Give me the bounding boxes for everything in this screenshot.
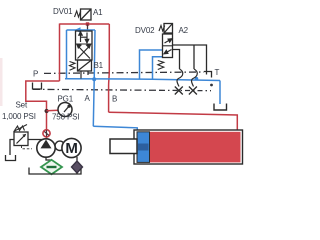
- check valve CV1 (red circle): [43, 130, 50, 137]
- valve DV01 position 1 arrows: [79, 32, 89, 43]
- wire relief valve drain to tank: [10, 140, 14, 156]
- pilot dashed line: [22, 146, 33, 149]
- valve DV02 position 2 arrow: [164, 50, 172, 54]
- wire blue box right vertical / work line A down: [93, 30, 95, 126]
- wire red left vertical: [59, 24, 61, 82]
- wire DV02 tank wire to T: [173, 45, 207, 75]
- svg-text:A2: A2: [179, 26, 189, 35]
- motor M1: [62, 138, 81, 157]
- svg-text:PG1: PG1: [58, 95, 74, 104]
- flow control FC2 arc arrow: [192, 69, 198, 87]
- valve DV01 solenoid spring: [75, 11, 81, 17]
- tank T2 (relief drain): [6, 155, 16, 161]
- valve DV01 position 2 crossed arrows: [77, 45, 91, 59]
- port T marker (corner bracket): [204, 72, 212, 78]
- cylinder piston (blue): [137, 132, 150, 163]
- relief valve RV1 spring/adjust arrow: [15, 126, 25, 131]
- valve DV02 bottom spring: [158, 61, 164, 70]
- relief valve RV1 flow arrow: [17, 135, 26, 144]
- svg-text:Set: Set: [16, 101, 28, 110]
- svg-text:B: B: [112, 95, 117, 104]
- filter F2 (return, dark diamond): [72, 161, 83, 173]
- flow control FC1 line from DV02: [173, 50, 180, 70]
- node pump outlet junction: [45, 109, 49, 113]
- cylinder rod: [110, 139, 137, 154]
- node A1 junction on red line: [86, 22, 89, 25]
- wire blue riser 2 to DV02 lower port: [153, 57, 163, 79]
- wire pump suction down: [46, 157, 51, 160]
- gauge PG1: [58, 103, 72, 117]
- cylinder CYL1 barrel: [134, 130, 243, 164]
- svg-text:1,000 PSI: 1,000 PSI: [2, 112, 36, 121]
- svg-text:P: P: [33, 70, 38, 79]
- flow control FC1 arc arrow: [177, 69, 183, 87]
- wire diamonds to reservoir: [52, 173, 78, 174]
- svg-text:M: M: [65, 140, 77, 157]
- valve DV01 bottom spring: [70, 62, 76, 71]
- wire blue to cylinder rod end: [93, 126, 137, 131]
- wire motor to return filter: [76, 157, 78, 161]
- valve DV01 solenoid box: [81, 9, 92, 20]
- filter F1 (suction strainer, green): [41, 160, 62, 175]
- svg-text:750 PSI: 750 PSI: [52, 113, 79, 122]
- wire blue tank return down: [219, 81, 221, 105]
- svg-text:T: T: [215, 68, 220, 77]
- svg-text:DV02: DV02: [135, 26, 155, 35]
- wire blue main horizontal run: [65, 79, 220, 81]
- flow control FC2 line from DV02 wire: [193, 45, 195, 70]
- valve DV02 body: [163, 34, 173, 58]
- wire blue riser to DV02: [140, 50, 163, 79]
- cylinder cap-end fluid (red): [150, 132, 241, 163]
- manifold top boundary dash-dot line: [44, 72, 204, 73]
- wire pump to check valve: [46, 137, 48, 139]
- valve DV01 body: [76, 31, 93, 60]
- port P marker (open box on boundary): [33, 83, 42, 90]
- manifold bottom boundary dash-dot line: [33, 89, 160, 90]
- arrow on B1 line: [75, 27, 81, 32]
- tank T1 (return reservoir symbol): [214, 104, 227, 111]
- flow control FC1 orifice X: [175, 87, 183, 95]
- valve DV02 solenoid box: [164, 24, 173, 34]
- svg-text:A1: A1: [93, 8, 103, 17]
- valve DV01 bottom solenoid box: [78, 60, 92, 71]
- pump P1: [37, 139, 55, 157]
- wire blue box left vertical: [66, 30, 68, 79]
- valve DV02 position 1 arrow: [165, 39, 173, 43]
- wire red bottom run to cylinder cap end: [109, 112, 238, 130]
- valve DV02 solenoid spring: [159, 26, 165, 32]
- coupling circle: [55, 141, 64, 150]
- svg-text:B1: B1: [94, 61, 104, 70]
- node blue tee junction: [92, 77, 96, 81]
- flow control FC2 orifice X: [189, 87, 197, 95]
- svg-text:A: A: [85, 94, 91, 103]
- wire DV01 bottom port stubs: [81, 71, 88, 79]
- wire relief valve to pump line: [28, 139, 46, 141]
- svg-text:DV01: DV01: [53, 7, 73, 16]
- wire reservoir bottom line: [29, 168, 81, 175]
- manifold bottom dash-dot continuation through flow controls: [160, 89, 211, 91]
- wire DV01 A-port stub: [81, 25, 88, 32]
- wire red to gauge PG1: [47, 109, 59, 112]
- relief valve RV1 body: [14, 132, 28, 146]
- wire blue B1 top edge with arrow: [67, 29, 96, 31]
- wire red right vertical A1 to cylinder: [108, 24, 111, 112]
- wire P supply red: top horizontal A1 run: [60, 23, 110, 25]
- dash-dot end dot: [210, 84, 213, 87]
- node blue at T bracket: [195, 77, 199, 81]
- wire red detour around P label: [26, 81, 60, 130]
